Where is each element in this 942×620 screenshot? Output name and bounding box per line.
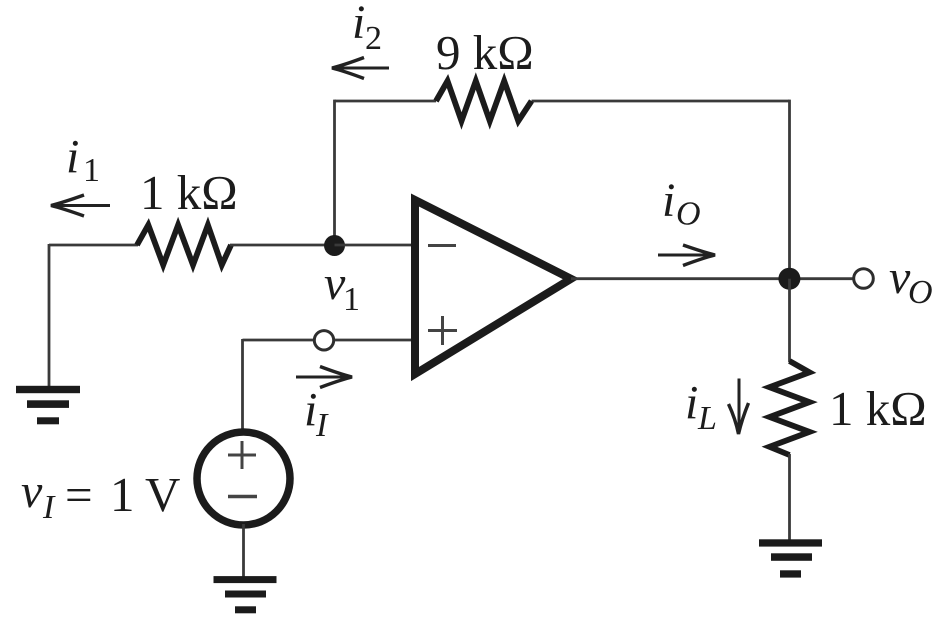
- wire: R1 to node v1: [230, 244, 335, 247]
- op-amp U1 triangle: [415, 200, 571, 374]
- node v1 junction dot: [324, 235, 345, 256]
- wire: feedback right vertical down to output junction: [788, 100, 791, 279]
- svg-text:2: 2: [365, 20, 382, 57]
- source minus sign: [228, 495, 257, 499]
- arrow iI (right): [296, 367, 352, 388]
- svg-text:i: i: [685, 377, 698, 430]
- arrow i2 (left): [332, 58, 389, 79]
- svg-text:9 kΩ: 9 kΩ: [436, 25, 534, 80]
- output junction dot: [778, 268, 800, 290]
- wire: node v1 to op-amp minus input: [335, 244, 414, 247]
- wire: source to bottom ground: [242, 524, 245, 577]
- svg-text:1 kΩ: 1 kΩ: [140, 165, 238, 220]
- svg-text:1: 1: [343, 281, 360, 318]
- svg-text:1: 1: [83, 152, 100, 189]
- wire: load resistor to ground: [788, 454, 791, 540]
- wire: plus input left segment: [243, 339, 314, 342]
- svg-text:O: O: [676, 196, 701, 233]
- svg-text:L: L: [697, 400, 717, 437]
- resistor 1 kOhm RL (vertical): [770, 361, 810, 455]
- wire: junction down to load resistor: [788, 279, 791, 362]
- op-amp plus input sign: [428, 316, 457, 345]
- wire: plus input down to source: [241, 339, 244, 431]
- svg-text:=: =: [65, 467, 93, 522]
- ground (below source): [214, 576, 277, 613]
- resistor 9 kOhm (feedback): [436, 81, 532, 121]
- voltage source VI circle: [197, 432, 290, 525]
- svg-text:i: i: [352, 0, 365, 49]
- svg-text:V: V: [145, 467, 180, 522]
- ground (right): [759, 539, 822, 577]
- wire: ground to resistor R1: [49, 244, 138, 247]
- op-amp minus input sign: [428, 244, 456, 247]
- svg-text:O: O: [908, 274, 933, 311]
- arrow iL (down): [729, 379, 749, 435]
- svg-text:1 kΩ: 1 kΩ: [829, 381, 927, 436]
- output terminal open circle vO: [854, 269, 874, 289]
- svg-text:I: I: [42, 489, 56, 526]
- arrow i1 (left): [51, 195, 110, 216]
- wire: open circle to op-amp plus input: [335, 339, 413, 342]
- resistor 1 kOhm R1: [137, 225, 231, 265]
- input terminal open circle: [314, 331, 333, 350]
- svg-text:v: v: [21, 465, 43, 518]
- ground (left): [16, 386, 80, 425]
- svg-text:1: 1: [110, 467, 135, 522]
- svg-text:i: i: [662, 174, 675, 227]
- wire: left vertical down to ground: [48, 244, 51, 387]
- arrow iO (right): [658, 245, 715, 266]
- svg-text:i: i: [66, 131, 79, 184]
- wire: top feedback horizontal right segment: [532, 100, 790, 103]
- wire: op-amp output: [571, 277, 854, 280]
- wire: feedback left vertical down to node v1: [333, 100, 336, 246]
- svg-text:I: I: [315, 407, 329, 444]
- source plus sign: [228, 441, 256, 469]
- wire: top feedback horizontal left segment: [335, 100, 437, 103]
